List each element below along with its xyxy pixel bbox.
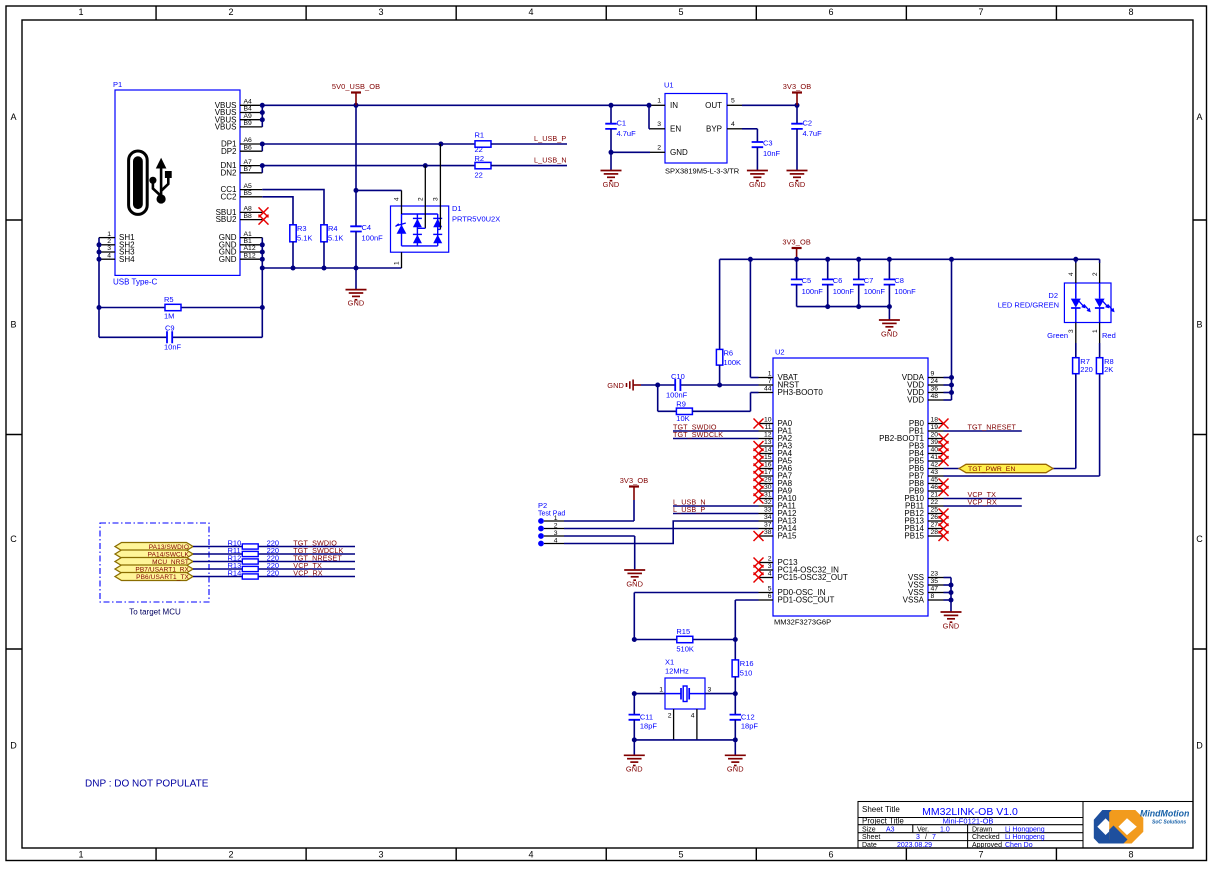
- svg-text:2K: 2K: [1104, 365, 1113, 374]
- svg-text:R2: R2: [475, 154, 485, 163]
- svg-text:GND: GND: [670, 148, 688, 157]
- LED D2 RED/GREEN: [998, 283, 1115, 323]
- svg-text:48: 48: [931, 393, 939, 400]
- MCU U2 MM32F3273G6P: [773, 348, 928, 627]
- svg-text:2: 2: [107, 238, 111, 245]
- wire U1 OUT to 3V3_OB: [742, 104, 797, 106]
- ground below C3: [747, 171, 768, 190]
- junction 3V3 rail: [748, 257, 1078, 262]
- svg-text:C5: C5: [802, 276, 812, 285]
- svg-text:17: 17: [764, 469, 772, 476]
- capacitor C9: [164, 324, 182, 352]
- junction R5 row: [260, 305, 265, 310]
- svg-text:B4: B4: [244, 106, 253, 113]
- svg-text:Sheet: Sheet: [862, 834, 880, 841]
- svg-text:100nF: 100nF: [833, 287, 855, 296]
- svg-text:B5: B5: [244, 190, 253, 197]
- capacitor C2: [791, 105, 822, 170]
- wire PB7 to R8 column: [944, 374, 1100, 476]
- resistor R7: [1073, 357, 1093, 374]
- wire CC1 to R4: [262, 190, 324, 225]
- svg-text:DP2: DP2: [221, 147, 237, 156]
- svg-text:2: 2: [657, 145, 661, 152]
- svg-text:C: C: [10, 534, 17, 544]
- svg-text:5.1K: 5.1K: [328, 234, 343, 243]
- svg-text:10: 10: [764, 417, 772, 424]
- svg-text:4: 4: [691, 713, 695, 720]
- ground below VSS: [941, 612, 962, 631]
- svg-text:11: 11: [764, 424, 771, 431]
- svg-text:TGT_SWDCLK: TGT_SWDCLK: [673, 430, 723, 439]
- svg-text:C8: C8: [894, 276, 904, 285]
- svg-text:18pF: 18pF: [640, 722, 658, 731]
- junction C5-C8 bus: [825, 304, 892, 309]
- svg-text:R3: R3: [297, 224, 307, 233]
- resistor R13: [228, 561, 259, 571]
- svg-text:Size: Size: [862, 826, 876, 833]
- svg-text:46: 46: [931, 484, 939, 491]
- svg-text:L_USB_P: L_USB_P: [534, 134, 566, 143]
- svg-text:Red: Red: [1102, 331, 1116, 340]
- junction VDD column: [949, 375, 954, 395]
- svg-text:U1: U1: [664, 81, 674, 90]
- wire PD1 to crystal: [735, 600, 758, 640]
- svg-text:C10: C10: [671, 372, 685, 381]
- svg-text:31: 31: [764, 492, 772, 499]
- svg-text:OUT: OUT: [705, 101, 722, 110]
- wire DP bus: [262, 144, 475, 151]
- P1 left shield pins SH1-SH4: [99, 231, 135, 264]
- svg-text:47: 47: [931, 586, 939, 593]
- svg-text:12: 12: [764, 432, 772, 439]
- svg-text:5: 5: [678, 850, 683, 860]
- svg-text:BYP: BYP: [706, 125, 722, 134]
- svg-text:A3: A3: [886, 826, 895, 833]
- svg-text:A4: A4: [244, 99, 253, 106]
- svg-text:3: 3: [107, 245, 111, 252]
- svg-text:220: 220: [267, 569, 280, 578]
- svg-text:Drawn: Drawn: [972, 826, 992, 833]
- svg-text:CC2: CC2: [220, 192, 237, 201]
- svg-text:24: 24: [931, 378, 939, 385]
- wire VCP_TX from PB10: [944, 498, 1022, 500]
- svg-text:SoC Solutions: SoC Solutions: [1152, 820, 1186, 826]
- net label TGT_SWDCLK: [293, 546, 343, 555]
- svg-text:D1: D1: [452, 204, 462, 213]
- svg-text:D2: D2: [1048, 291, 1058, 300]
- svg-text:C6: C6: [833, 276, 843, 285]
- D1 pin 4: [394, 190, 402, 214]
- svg-text:DN2: DN2: [220, 168, 237, 177]
- harness flag PB6/USART1_TX: [115, 573, 193, 581]
- svg-text:A: A: [1196, 112, 1202, 122]
- wire LED green column: [1075, 259, 1077, 357]
- svg-text:Green: Green: [1047, 331, 1068, 340]
- svg-text:34: 34: [764, 514, 772, 521]
- svg-text:GND: GND: [789, 180, 806, 189]
- capacitor C11: [629, 694, 658, 740]
- svg-text:MM32F3273G6P: MM32F3273G6P: [774, 618, 831, 627]
- svg-text:2: 2: [554, 522, 558, 529]
- svg-text:100nF: 100nF: [864, 287, 886, 296]
- svg-text:3V3_OB: 3V3_OB: [783, 82, 812, 91]
- svg-text:C4: C4: [362, 223, 372, 232]
- svg-text:3: 3: [554, 530, 558, 537]
- D1 pin 3: [432, 144, 440, 229]
- U2 right pin stubs: [928, 378, 944, 601]
- net label Red: [1102, 331, 1116, 340]
- wire U1 EN branch: [649, 105, 650, 129]
- net label TGT_SWDIO: [673, 422, 717, 431]
- svg-text:Sheet Title: Sheet Title: [862, 805, 900, 814]
- svg-text:3: 3: [657, 121, 661, 128]
- svg-text:Project Title: Project Title: [862, 816, 904, 825]
- junction NRST row: [655, 383, 722, 388]
- ground left of C10: [607, 380, 641, 391]
- resistor R8: [1096, 357, 1113, 374]
- svg-text:VCP_RX: VCP_RX: [968, 498, 997, 507]
- net label TGT_NRESET: [968, 422, 1017, 431]
- net label TGT_SWDIO: [293, 539, 337, 548]
- resistor R14: [228, 569, 259, 579]
- wire SH shield bus: [98, 238, 100, 338]
- svg-text:41: 41: [931, 454, 939, 461]
- value 220 R14: [267, 569, 280, 578]
- capacitor C4: [350, 105, 383, 268]
- svg-text:B: B: [1196, 320, 1202, 330]
- svg-text:3: 3: [916, 834, 920, 841]
- svg-text:PRTR5V0U2X: PRTR5V0U2X: [452, 215, 500, 224]
- svg-text:R6: R6: [724, 349, 734, 358]
- net label VCP_RX: [293, 569, 322, 578]
- svg-text:B1: B1: [244, 238, 253, 245]
- svg-text:C9: C9: [165, 324, 175, 333]
- svg-text:7: 7: [978, 850, 983, 860]
- svg-text:2023.08.29: 2023.08.29: [897, 842, 932, 849]
- svg-text:4: 4: [394, 197, 401, 201]
- svg-text:B: B: [10, 320, 16, 330]
- wire U1 GND to C1: [611, 151, 650, 153]
- connector P1 USB Type-C: [113, 80, 240, 287]
- svg-text:PH3-BOOT0: PH3-BOOT0: [778, 388, 824, 397]
- net label VCP_TX: [293, 561, 322, 570]
- svg-text:7: 7: [978, 7, 983, 17]
- U2 left pin stubs: [759, 378, 774, 601]
- svg-text:IN: IN: [670, 101, 678, 110]
- svg-text:6: 6: [828, 7, 833, 17]
- svg-text:100K: 100K: [724, 358, 742, 367]
- svg-text:220: 220: [1080, 365, 1093, 374]
- svg-text:1: 1: [768, 371, 772, 378]
- svg-text:DNP : DO NOT POPULATE: DNP : DO NOT POPULATE: [85, 779, 209, 790]
- svg-text:7: 7: [768, 378, 772, 385]
- svg-text:B6: B6: [244, 144, 253, 151]
- junction P1 GND pins: [260, 242, 265, 270]
- harness flag PA13/SWDIO: [115, 543, 193, 551]
- svg-text:3V3_OB: 3V3_OB: [620, 476, 649, 485]
- wire VCP_RX from PB11: [944, 505, 1022, 507]
- svg-text:VCP_RX: VCP_RX: [293, 569, 322, 578]
- svg-text:C12: C12: [741, 713, 755, 722]
- ground below C2: [787, 171, 808, 190]
- svg-text:C: C: [1196, 534, 1203, 544]
- svg-text:Ver.: Ver.: [917, 826, 929, 833]
- svg-text:U2: U2: [775, 348, 785, 357]
- svg-text:20: 20: [931, 432, 939, 439]
- svg-text:D: D: [10, 741, 17, 751]
- svg-text:L_USB_P: L_USB_P: [673, 505, 705, 514]
- svg-text:10nF: 10nF: [763, 149, 781, 158]
- regulator U1 SPX3819: [664, 81, 740, 176]
- svg-text:1: 1: [1092, 329, 1099, 333]
- svg-text:3: 3: [1068, 329, 1075, 333]
- svg-text:40: 40: [931, 447, 939, 454]
- svg-text:1: 1: [659, 687, 663, 694]
- net label VCP_RX: [968, 498, 997, 507]
- blanket To target MCU: [100, 523, 209, 617]
- D1 pin 2: [417, 166, 425, 229]
- svg-text:R16: R16: [740, 659, 754, 668]
- svg-text:GND: GND: [881, 330, 898, 339]
- svg-text:2: 2: [228, 850, 233, 860]
- value 220 R13: [267, 561, 280, 570]
- wire 5V0_USB_OB rail to U1: [262, 104, 650, 106]
- svg-text:18: 18: [931, 417, 939, 424]
- no-connect X U2 right pins: [939, 419, 949, 542]
- svg-text:14: 14: [764, 447, 772, 454]
- svg-text:1: 1: [78, 7, 83, 17]
- capacitor C12: [730, 694, 759, 740]
- svg-text:5V0_USB_OB: 5V0_USB_OB: [332, 82, 380, 91]
- net label L_USB_N at PA11: [673, 497, 706, 506]
- resistor R9: [658, 385, 759, 423]
- svg-text:Mini-F0121-OB: Mini-F0121-OB: [943, 816, 994, 825]
- wire P1 GND pins bus: [261, 238, 263, 268]
- wire VBUS bus at P1: [261, 105, 263, 127]
- resistor R5: [164, 295, 181, 321]
- junction R3 R4 on GND bus: [291, 266, 327, 271]
- svg-text:510K: 510K: [676, 645, 694, 654]
- capacitor C8: [884, 259, 916, 306]
- resistor R12: [228, 554, 259, 564]
- capacitor C6: [822, 259, 854, 306]
- svg-text:Date: Date: [862, 842, 877, 849]
- svg-text:VDD: VDD: [907, 396, 924, 405]
- svg-text:A1: A1: [244, 231, 253, 238]
- svg-text:GND: GND: [603, 180, 620, 189]
- svg-text:GND: GND: [626, 580, 643, 589]
- junction DP: [260, 142, 444, 147]
- svg-text:TGT_PWR_EN: TGT_PWR_EN: [968, 466, 1015, 473]
- svg-text:3: 3: [768, 563, 772, 570]
- junction U1 EN: [647, 103, 652, 108]
- svg-text:PD1-OSC_OUT: PD1-OSC_OUT: [778, 596, 835, 605]
- title block texts: [862, 805, 1045, 849]
- wire P2 pin3 to GND: [564, 536, 635, 570]
- wire TGT_SWDCLK row: [193, 553, 355, 555]
- svg-text:510: 510: [740, 669, 753, 678]
- capacitor C5: [791, 259, 823, 306]
- svg-text:4: 4: [1068, 272, 1075, 276]
- svg-text:1.0: 1.0: [940, 826, 950, 833]
- svg-text:6: 6: [768, 593, 772, 600]
- wire VCP_RX row: [193, 576, 355, 578]
- svg-text:16: 16: [764, 462, 772, 469]
- svg-text:12MHz: 12MHz: [665, 667, 689, 676]
- wire CC2 to R3: [262, 197, 293, 225]
- svg-text:4: 4: [554, 537, 558, 544]
- svg-text:22: 22: [475, 171, 483, 180]
- svg-text:VSSA: VSSA: [903, 596, 925, 605]
- svg-text:1: 1: [78, 850, 83, 860]
- svg-text:GND: GND: [607, 381, 624, 390]
- svg-text:28: 28: [931, 529, 939, 536]
- wire GND bus to D1: [262, 267, 401, 269]
- wire L_USB_N to PA11: [673, 505, 759, 507]
- resistor R15: [634, 627, 735, 654]
- wire P2 pin1 to 3V3: [564, 520, 634, 522]
- wire 3V3 rail: [720, 258, 1100, 260]
- svg-text:B8: B8: [244, 213, 253, 220]
- power 3V3_OB at P2: [620, 476, 649, 521]
- value 220 R11: [267, 546, 280, 555]
- wire PD0 to crystal: [634, 593, 758, 640]
- wire DN bus: [262, 166, 475, 173]
- D1 pin 1: [394, 252, 402, 268]
- svg-text:7: 7: [932, 834, 936, 841]
- svg-text:TGT_NRESET: TGT_NRESET: [968, 422, 1017, 431]
- svg-text:33: 33: [764, 507, 772, 514]
- wire LED red column: [1099, 259, 1101, 357]
- junction C4: [354, 103, 359, 271]
- svg-text:A: A: [10, 112, 16, 122]
- svg-text:45: 45: [931, 477, 939, 484]
- no-connect X U2 left pins: [754, 419, 764, 583]
- svg-text:L_USB_N: L_USB_N: [534, 156, 567, 165]
- svg-text:P1: P1: [113, 80, 122, 89]
- net label L_USB_P at PA12: [673, 505, 705, 514]
- no-connect X SBU1 SBU2: [259, 207, 269, 224]
- svg-text:4: 4: [107, 252, 111, 259]
- wire NRST row: [641, 384, 759, 386]
- wire C5-C8 bottom bus: [797, 306, 890, 308]
- svg-text:A5: A5: [244, 183, 253, 190]
- wire PB6 to R7 column: [944, 374, 1076, 469]
- P1 right pin stubs and pin numbers: [215, 99, 263, 264]
- junction SH bus: [97, 242, 102, 310]
- net label TGT_SWDCLK: [673, 430, 723, 439]
- junction C1: [609, 103, 614, 155]
- svg-text:Test Pad: Test Pad: [538, 511, 565, 518]
- wire L_USB_P to PA12: [673, 513, 759, 515]
- USB receptacle icon: [129, 151, 172, 214]
- value 220 R12: [267, 554, 280, 563]
- wire P2 pin4 to PA13: [564, 521, 759, 544]
- wire R5 row: [99, 307, 262, 309]
- wire crystal pin3: [705, 693, 735, 695]
- title block: [858, 802, 1193, 849]
- svg-text:39: 39: [931, 439, 939, 446]
- resistor R2: [475, 154, 492, 180]
- svg-text:23: 23: [931, 571, 939, 578]
- harness flag MCU_NRST: [115, 558, 193, 566]
- wire TGT_SWDCLK to PA2: [673, 438, 759, 440]
- svg-text:44: 44: [764, 386, 772, 393]
- svg-text:C1: C1: [617, 119, 627, 128]
- U2 left pin numbers: [764, 371, 772, 601]
- wire crystal pin1: [634, 693, 665, 695]
- svg-text:GND: GND: [626, 765, 643, 774]
- svg-text:GND: GND: [219, 255, 237, 264]
- U1 pin stubs: [650, 98, 742, 153]
- svg-text:SBU2: SBU2: [216, 215, 237, 224]
- svg-text:MindMotion: MindMotion: [1140, 809, 1189, 819]
- svg-text:B7: B7: [244, 166, 253, 173]
- svg-text:22: 22: [931, 499, 939, 506]
- svg-text:GND: GND: [727, 765, 744, 774]
- svg-text:Approved: Approved: [972, 842, 1002, 849]
- net label Green: [1047, 331, 1068, 340]
- svg-text:R5: R5: [164, 295, 174, 304]
- svg-text:8: 8: [1128, 7, 1133, 17]
- svg-text:5.1K: 5.1K: [297, 234, 312, 243]
- svg-text:EN: EN: [670, 125, 681, 134]
- svg-text:4: 4: [731, 121, 735, 128]
- junction U1 OUT: [795, 103, 800, 108]
- svg-text:5: 5: [768, 586, 772, 593]
- resistor R11: [228, 546, 259, 556]
- svg-text:4: 4: [768, 571, 772, 578]
- svg-text:100nF: 100nF: [802, 287, 824, 296]
- svg-text:R1: R1: [475, 131, 485, 140]
- resistor R1: [475, 131, 492, 154]
- wire TGT_NRESET row: [193, 561, 355, 563]
- svg-text:25: 25: [931, 507, 939, 514]
- wire VSS column: [944, 578, 952, 613]
- svg-text:GND: GND: [348, 299, 365, 308]
- harness flag PB7/USART1_RX: [115, 565, 193, 573]
- ground below C4: [346, 268, 367, 308]
- svg-text:8: 8: [1128, 850, 1133, 860]
- wire C9 row: [99, 336, 262, 338]
- ground below C12: [725, 740, 746, 774]
- svg-text:X1: X1: [665, 658, 674, 667]
- power 3V3_OB at rail: [782, 238, 811, 260]
- ground below C11: [624, 740, 645, 774]
- svg-text:2: 2: [768, 556, 772, 563]
- junction R15: [632, 637, 738, 642]
- svg-text:3: 3: [432, 197, 439, 201]
- svg-text:C3: C3: [763, 139, 773, 148]
- svg-text:C11: C11: [640, 713, 653, 722]
- svg-text:19: 19: [931, 424, 939, 431]
- svg-text:C2: C2: [803, 119, 813, 128]
- junction crystal ground bus: [632, 737, 738, 742]
- ground below P2: [624, 570, 645, 589]
- svg-text:18pF: 18pF: [741, 722, 759, 731]
- junction VSS column: [949, 583, 954, 603]
- connector P2 Test Pad: [538, 501, 565, 546]
- svg-text:100nF: 100nF: [362, 234, 384, 243]
- svg-text:A9: A9: [244, 113, 253, 120]
- power 3V3_OB at U1: [783, 82, 812, 105]
- svg-text:100nF: 100nF: [894, 287, 916, 296]
- svg-text:PB6/USART1_TX: PB6/USART1_TX: [136, 574, 189, 581]
- resistor R16: [732, 640, 753, 694]
- svg-text:R14: R14: [228, 569, 242, 578]
- ground below C1: [601, 152, 622, 189]
- svg-text:Checked: Checked: [972, 834, 1000, 841]
